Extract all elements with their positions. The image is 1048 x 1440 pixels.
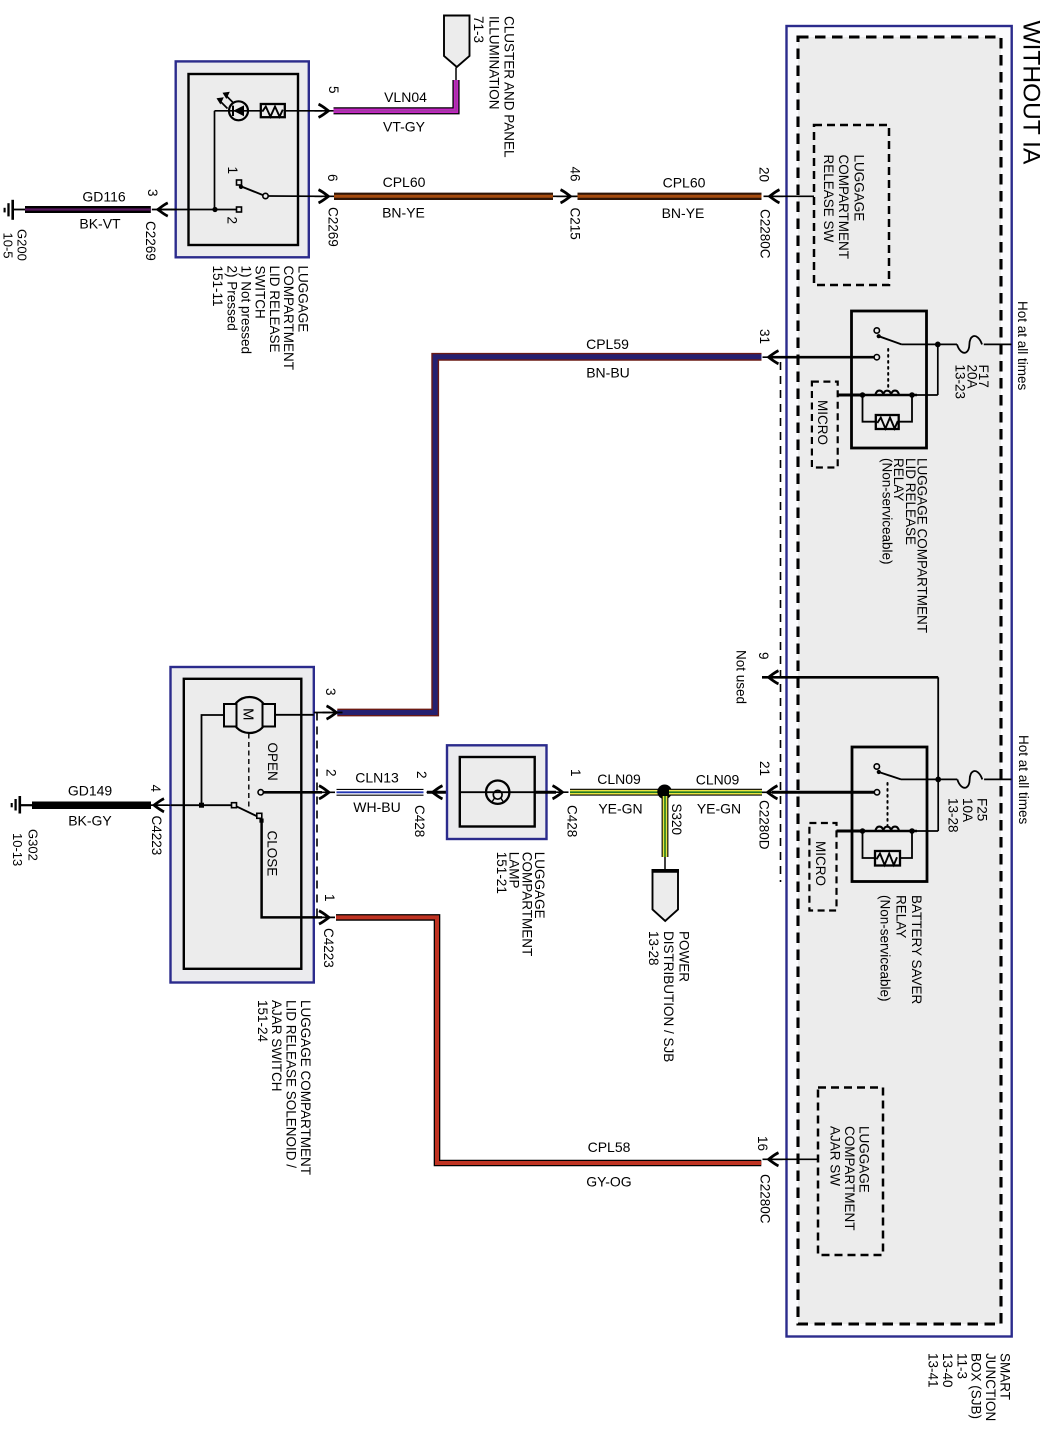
svg-text:CLN13: CLN13 xyxy=(355,770,399,786)
wire to coil right terminal xyxy=(912,394,938,396)
svg-text:S320: S320 xyxy=(669,804,684,836)
LED light emission arrows xyxy=(226,95,234,103)
wire riser junction to pin 9 xyxy=(937,677,939,779)
svg-text:CLOSE: CLOSE xyxy=(265,831,280,877)
connector C2269 pin 6 arrow xyxy=(315,190,335,203)
svg-text:C428: C428 xyxy=(565,805,580,837)
svg-text:C2269: C2269 xyxy=(143,221,158,261)
svg-text:3: 3 xyxy=(145,189,160,197)
svg-text:BATTERY SAVER: BATTERY SAVER xyxy=(909,895,924,1005)
junction LED branch xyxy=(212,207,217,212)
lamp bulb symbol xyxy=(486,781,509,804)
switch S2 blade xyxy=(236,806,258,817)
luggage compartment lid release switch inner box xyxy=(189,74,299,245)
svg-text:LID RELEASE: LID RELEASE xyxy=(267,266,282,353)
svg-text:MICRO: MICRO xyxy=(815,400,830,445)
relay K2 blade pivot dot xyxy=(877,770,881,774)
wire junction down to coil xyxy=(937,344,939,395)
wire pin 21 to relay K2 contact xyxy=(772,791,874,794)
wire fuse F17 to hot feed xyxy=(984,343,1012,345)
wire fuse F25 to hot feed xyxy=(984,778,1011,780)
relay K2 switch blade xyxy=(879,772,901,779)
svg-text:BN-YE: BN-YE xyxy=(662,205,705,221)
switch S1 contact pin 1 xyxy=(237,180,242,185)
svg-text:13-40: 13-40 xyxy=(940,1353,955,1388)
switch S2 open contact xyxy=(258,790,263,795)
svg-text:2) Pressed: 2) Pressed xyxy=(224,266,239,331)
junction relay K1 feed xyxy=(935,342,941,348)
wire open contact to pin 2 xyxy=(263,791,322,794)
relay K2 coil xyxy=(862,830,917,832)
svg-text:G302: G302 xyxy=(26,829,41,861)
wire relay K2 common to fuse F25 xyxy=(901,778,957,780)
svg-text:F25: F25 xyxy=(975,798,990,821)
switch S1 contact pin 2 xyxy=(237,207,242,212)
connector pin 31 arrow xyxy=(763,351,783,364)
wire junction down to coil K2 xyxy=(937,779,939,831)
svg-text:LID RELEASE SOLENOID /: LID RELEASE SOLENOID / xyxy=(284,1000,299,1168)
MICRO dashed box relay K2 xyxy=(809,823,836,911)
wire pin 16 to ajar SW xyxy=(772,1158,818,1160)
dashed mechanical link motor to switch xyxy=(248,734,250,811)
svg-text:C2280C: C2280C xyxy=(758,1174,773,1224)
splice S320 xyxy=(657,785,672,800)
svg-text:C4223: C4223 xyxy=(321,928,336,968)
svg-text:VT-GY: VT-GY xyxy=(383,119,426,135)
luggage compartment lid release solenoid outer box xyxy=(171,667,314,983)
junction coil K2 left xyxy=(860,828,866,834)
svg-text:MICRO: MICRO xyxy=(813,841,828,886)
svg-text:COMPARTMENT: COMPARTMENT xyxy=(281,266,296,371)
junction coil right xyxy=(909,392,915,398)
relay K1 blade pivot dot xyxy=(877,334,881,338)
fuse F17 xyxy=(957,336,982,353)
svg-text:11-3: 11-3 xyxy=(954,1353,969,1379)
off-page connector cluster and panel illumination xyxy=(444,16,470,68)
svg-text:9: 9 xyxy=(756,652,771,660)
svg-text:CPL60: CPL60 xyxy=(383,174,426,190)
wire pin 4 to switch pivot xyxy=(171,804,232,806)
svg-text:GD149: GD149 xyxy=(68,783,113,799)
wire lamp internal xyxy=(460,791,535,793)
svg-text:10-5: 10-5 xyxy=(1,233,16,259)
connector C2280C pin 20 arrow xyxy=(764,190,784,203)
off-page connector power distribution xyxy=(653,870,679,921)
svg-text:COMPARTMENT: COMPARTMENT xyxy=(842,1126,857,1231)
relay K1 coil xyxy=(862,394,917,396)
svg-text:2: 2 xyxy=(225,217,240,225)
SJB inner dashed boundary xyxy=(798,37,1001,1324)
svg-text:151-21: 151-21 xyxy=(494,852,509,894)
relay K2 output contact xyxy=(874,790,879,795)
resistor relay K1 suppression xyxy=(876,415,899,429)
svg-text:OPEN: OPEN xyxy=(265,743,280,781)
wire pin 20 to release SW xyxy=(772,195,814,197)
svg-text:CLN09: CLN09 xyxy=(597,771,641,787)
relay K1 luggage compartment lid release relay box xyxy=(852,311,927,448)
wire pin 3 stub xyxy=(160,209,176,211)
switch S1 common contact xyxy=(263,193,268,198)
svg-text:10-13: 10-13 xyxy=(10,833,25,866)
connector C4223 pin 1 arrow xyxy=(315,911,335,924)
svg-text:71-3: 71-3 xyxy=(471,16,486,43)
relay K2 dotted actuation link xyxy=(887,783,889,827)
svg-text:C4223: C4223 xyxy=(149,816,164,856)
luggage compartment lid release switch outer box xyxy=(176,61,309,257)
wire pin 31 to relay contact xyxy=(772,356,874,359)
svg-text:BK-VT: BK-VT xyxy=(79,216,121,232)
wire GD116 BK-VT xyxy=(25,206,151,213)
svg-text:JUNCTION: JUNCTION xyxy=(983,1353,998,1421)
svg-text:13-28: 13-28 xyxy=(646,931,661,966)
svg-text:WH-BU: WH-BU xyxy=(353,799,400,815)
wire lamp right lead xyxy=(535,791,556,794)
svg-text:C428: C428 xyxy=(412,805,427,837)
switch S1 blade tip dot xyxy=(239,185,243,189)
svg-text:31: 31 xyxy=(757,329,772,344)
connector C4223 pin 3 arrow xyxy=(323,706,343,719)
connector C215 pin 46 arrow xyxy=(557,190,577,203)
luggage compartment lamp inner box xyxy=(460,757,535,827)
svg-text:YE-GN: YE-GN xyxy=(598,801,642,817)
svg-text:13-41: 13-41 xyxy=(926,1353,941,1388)
wire coil K2 left terminal to MICRO xyxy=(837,830,863,833)
wire VLN04 VT-GY xyxy=(334,80,457,111)
svg-text:21: 21 xyxy=(757,761,772,776)
svg-text:151-24: 151-24 xyxy=(255,1000,270,1043)
relay K1 coil suppression resistor leads xyxy=(863,395,913,422)
wire CLN13 WH-BU xyxy=(337,789,424,796)
wire CLN09 splice branch xyxy=(662,796,669,857)
svg-text:BN-BU: BN-BU xyxy=(586,365,630,381)
wire CLN09 YE-GN segment 1 xyxy=(570,789,660,796)
junction coil K2 right xyxy=(909,828,915,834)
svg-text:6: 6 xyxy=(325,174,340,182)
svg-text:GD116: GD116 xyxy=(82,189,126,205)
junction relay K2 feed xyxy=(935,777,941,783)
svg-text:LUGGAGE COMPARTMENT: LUGGAGE COMPARTMENT xyxy=(298,1000,313,1175)
fuse F25 xyxy=(957,771,982,788)
svg-text:13-28: 13-28 xyxy=(945,798,960,833)
svg-text:WITHOUT IA: WITHOUT IA xyxy=(1018,21,1045,165)
wire pin 4 stub xyxy=(151,804,171,806)
svg-text:DISTRIBUTION / SJB: DISTRIBUTION / SJB xyxy=(661,931,676,1062)
wire C215 stub xyxy=(553,195,578,197)
svg-text:1: 1 xyxy=(568,769,583,777)
svg-text:AJAR SWITCH: AJAR SWITCH xyxy=(269,1000,284,1092)
svg-text:COMPARTMENT: COMPARTMENT xyxy=(836,155,851,260)
svg-text:2: 2 xyxy=(324,769,339,777)
switch S2 blade contact xyxy=(257,813,262,818)
svg-text:10A: 10A xyxy=(960,798,975,822)
connector C2280D pin 21 arrow xyxy=(762,786,782,799)
wire pin 3 to switch pin 2 xyxy=(171,209,237,211)
svg-text:5: 5 xyxy=(326,86,341,94)
wire CPL60 BN-YE segment 2 xyxy=(578,193,762,200)
svg-text:LUGGAGE: LUGGAGE xyxy=(295,266,310,333)
svg-text:M: M xyxy=(240,708,257,721)
svg-text:CPL58: CPL58 xyxy=(588,1139,631,1155)
relay K1 output contact xyxy=(874,355,879,360)
LED indicator lamp xyxy=(229,101,248,120)
wire to coil K2 right terminal xyxy=(912,830,938,832)
connector C428 pin 2 arrow xyxy=(427,786,447,799)
connector C4223 pin 2 arrow xyxy=(315,786,335,799)
svg-text:2: 2 xyxy=(414,771,429,779)
svg-text:C2280D: C2280D xyxy=(757,800,772,850)
svg-text:BN-YE: BN-YE xyxy=(382,205,425,221)
connector C428 pin 1 arrow xyxy=(549,786,569,799)
svg-text:CLUSTER AND PANEL: CLUSTER AND PANEL xyxy=(502,16,517,158)
svg-text:CLN09: CLN09 xyxy=(696,772,740,788)
wire resistor to pin 5 xyxy=(285,110,322,112)
wire pin 9 not used xyxy=(762,676,938,679)
wire pin 3 stub xyxy=(314,712,330,714)
MICRO dashed box relay K1 xyxy=(812,382,838,468)
connector C2269 pin 3 arrow xyxy=(152,203,172,216)
svg-text:SWITCH: SWITCH xyxy=(253,266,268,319)
wire GD149 BK-GY xyxy=(32,801,151,809)
relay K1 dotted actuation link xyxy=(887,349,889,391)
svg-text:RELAY: RELAY xyxy=(893,895,908,938)
svg-text:AJAR SW: AJAR SW xyxy=(827,1126,842,1186)
svg-text:ILLUMINATION: ILLUMINATION xyxy=(486,16,501,110)
wire lamp left lead xyxy=(427,791,460,794)
svg-text:YE-GN: YE-GN xyxy=(697,801,741,817)
relay K2 upper contact xyxy=(874,764,879,769)
svg-text:RELEASE SW: RELEASE SW xyxy=(821,155,836,243)
svg-text:C2280C: C2280C xyxy=(758,209,773,259)
svg-text:BOX (SJB): BOX (SJB) xyxy=(969,1353,984,1419)
dashed connector bracket line pins 3/2/1 xyxy=(316,713,318,918)
svg-text:Hot at all times: Hot at all times xyxy=(1016,735,1031,825)
svg-text:Hot at all times: Hot at all times xyxy=(1015,301,1030,391)
svg-text:1: 1 xyxy=(322,894,337,902)
wire relay K1 common to fuse F17 xyxy=(902,343,958,345)
resistor R1 illumination xyxy=(261,104,285,117)
svg-text:151-11: 151-11 xyxy=(210,266,225,307)
luggage compartment lid release solenoid inner box xyxy=(184,679,301,969)
relay K1 switch blade xyxy=(879,336,902,344)
switch S2 blade tip xyxy=(259,819,263,823)
wire CPL58 GY-OG xyxy=(336,917,761,1163)
switch S2 pivot contact xyxy=(232,803,237,808)
wire CPL59 BN-BU xyxy=(337,357,761,713)
wire motor to pin 3 xyxy=(275,714,314,716)
svg-text:1: 1 xyxy=(225,167,240,175)
ground G200 symbol xyxy=(11,200,14,220)
svg-text:POWER: POWER xyxy=(677,931,692,982)
junction coil left xyxy=(860,392,866,398)
svg-text:C215: C215 xyxy=(568,208,583,240)
svg-text:BK-GY: BK-GY xyxy=(68,813,112,829)
svg-text:Not used: Not used xyxy=(734,650,749,704)
svg-text:20: 20 xyxy=(757,167,772,182)
svg-text:CPL60: CPL60 xyxy=(663,175,706,191)
wire CLN09 YE-GN segment 2 xyxy=(669,789,762,796)
svg-text:4: 4 xyxy=(148,785,163,793)
wire LED branch vertical xyxy=(214,111,216,210)
wire stub to power distribution arrow xyxy=(664,857,666,870)
svg-text:C2269: C2269 xyxy=(326,207,341,247)
smart junction box SJB outer box xyxy=(787,26,1012,1337)
wire common to pin 6 xyxy=(268,195,322,197)
ground G302 symbol xyxy=(18,796,21,814)
connector pin 9 arrow xyxy=(763,671,783,684)
svg-text:LUGGAGE: LUGGAGE xyxy=(852,155,867,222)
svg-text:G200: G200 xyxy=(15,229,30,261)
svg-text:(Non-serviceable): (Non-serviceable) xyxy=(879,458,894,565)
svg-text:16: 16 xyxy=(755,1136,770,1151)
wire close contact to pin 1 xyxy=(262,821,322,917)
luggage compartment release SW dashed box xyxy=(814,125,889,285)
svg-text:CPL59: CPL59 xyxy=(586,336,629,352)
connector C2280C pin 16 arrow xyxy=(763,1153,783,1166)
luggage compartment ajar SW dashed box xyxy=(818,1088,883,1256)
luggage compartment lamp outer box xyxy=(447,745,547,839)
junction motor branch xyxy=(199,803,204,808)
wire coil left terminal to MICRO xyxy=(838,394,863,397)
relay K1 upper contact xyxy=(874,328,879,333)
svg-text:13-23: 13-23 xyxy=(953,365,968,400)
svg-text:(Non-serviceable): (Non-serviceable) xyxy=(878,895,893,1002)
svg-text:SMART: SMART xyxy=(998,1353,1013,1400)
svg-text:VLN04: VLN04 xyxy=(384,89,427,105)
relay K2 coil suppression resistor leads xyxy=(863,831,913,858)
relay K2 battery saver relay box xyxy=(852,747,927,882)
resistor relay K2 suppression xyxy=(875,851,900,866)
svg-text:GY-OG: GY-OG xyxy=(586,1174,631,1190)
connector C4223 pin 4 arrow xyxy=(148,799,168,812)
svg-text:LUGGAGE: LUGGAGE xyxy=(857,1126,872,1193)
motor M solenoid xyxy=(232,697,268,733)
dashed connector bracket line pins 31/9/21 xyxy=(780,362,782,882)
svg-text:3: 3 xyxy=(323,688,338,696)
wire motor to pin 4 branch xyxy=(202,715,225,805)
connector C2269 pin 5 arrow xyxy=(315,104,335,117)
svg-text:46: 46 xyxy=(568,167,583,182)
wire LED feed xyxy=(215,110,261,112)
switch S1 blade xyxy=(242,187,263,195)
wire stub to off-page arrow xyxy=(455,68,457,81)
wire CPL60 BN-YE segment 1 xyxy=(334,193,553,200)
svg-text:1) Not pressed: 1) Not pressed xyxy=(239,266,254,355)
